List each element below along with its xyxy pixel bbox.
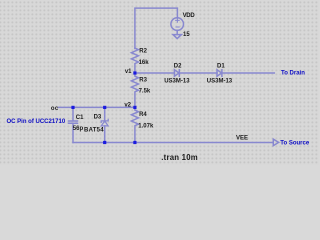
svg-text:D1: D1 xyxy=(217,63,225,69)
svg-text:R3: R3 xyxy=(139,78,147,84)
svg-text:To Source: To Source xyxy=(280,141,310,147)
svg-text:US3M-13: US3M-13 xyxy=(207,78,233,84)
svg-text:VEE: VEE xyxy=(236,135,248,141)
svg-text:16k: 16k xyxy=(139,60,150,66)
svg-text:56p: 56p xyxy=(73,126,84,132)
svg-text:OC Pin of UCC21710: OC Pin of UCC21710 xyxy=(7,119,66,125)
svg-text:oc: oc xyxy=(51,106,59,112)
svg-text:To Drain: To Drain xyxy=(281,70,305,76)
svg-text:15: 15 xyxy=(183,32,190,38)
svg-text:BAT54: BAT54 xyxy=(84,127,104,133)
svg-text:v1: v1 xyxy=(125,69,132,75)
svg-text:1.07k: 1.07k xyxy=(138,123,154,129)
svg-text:v2: v2 xyxy=(124,103,131,109)
svg-text:D3: D3 xyxy=(94,115,102,121)
svg-text:R2: R2 xyxy=(139,49,147,55)
svg-text:C1: C1 xyxy=(76,115,84,121)
svg-text:D2: D2 xyxy=(174,63,182,69)
svg-text:7.5k: 7.5k xyxy=(139,89,151,95)
svg-text:VDD: VDD xyxy=(183,13,196,19)
svg-text:R4: R4 xyxy=(139,112,147,118)
svg-text:US3M-13: US3M-13 xyxy=(164,78,190,84)
svg-text:.tran 10m: .tran 10m xyxy=(161,153,198,162)
